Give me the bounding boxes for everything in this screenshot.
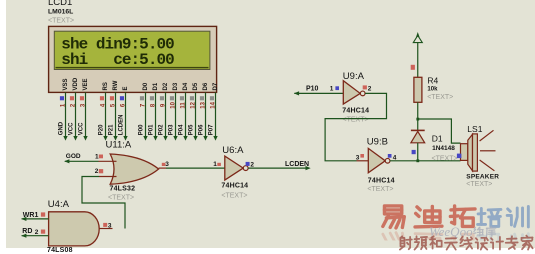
- svg-text:D1: D1: [153, 82, 159, 90]
- wire U9:B output to speaker LS1 pin 2: [390, 160, 461, 162]
- logic state square U11:A pin 2: [99, 169, 103, 173]
- inverter U6:A body 74HC14: [225, 156, 243, 180]
- wire terminal WR1 to U4:A pin 1: [22, 218, 49, 220]
- logic state square U4:A pin 3: [103, 223, 107, 227]
- wire LCD pin 8 to terminal P01: [155, 92, 157, 136]
- logic state square D1 anode: [412, 150, 416, 154]
- wire LCD pin 13 to terminal P06: [205, 92, 207, 136]
- svg-text:10: 10: [170, 101, 176, 108]
- svg-text:WR1: WR1: [23, 212, 39, 219]
- wire LCD pin 4 to terminal P20: [105, 92, 107, 136]
- svg-text:LCD1: LCD1: [48, 0, 72, 8]
- logic state square LCD pin 6: [120, 96, 124, 100]
- junction dot R4/D1/speaker node: [416, 118, 419, 121]
- svg-text:74HC14: 74HC14: [221, 182, 248, 189]
- svg-text:VSS: VSS: [63, 78, 69, 90]
- wire LCD pin 7 to terminal P00: [145, 92, 147, 136]
- svg-text:P21: P21: [109, 124, 115, 135]
- wire LCD pin 14 to terminal P07: [215, 92, 217, 136]
- wire node GOD to U11:A pin 1: [65, 160, 99, 162]
- watermark logo char xun (blue): [507, 206, 528, 227]
- svg-text:VDD: VDD: [73, 77, 79, 90]
- wire LCD pin 12 to terminal P05: [195, 92, 197, 136]
- svg-text:3: 3: [356, 154, 360, 161]
- logic state square U11:A pin 3: [162, 163, 166, 166]
- svg-text:D2: D2: [163, 82, 169, 90]
- and-gate U4:A body 74LS08: [49, 212, 100, 246]
- svg-text:RD: RD: [22, 228, 32, 235]
- svg-text:U4:A: U4:A: [48, 199, 70, 210]
- svg-text:<TEXT>: <TEXT>: [432, 156, 458, 163]
- svg-text:SPEAKER: SPEAKER: [466, 174, 499, 181]
- svg-text:<TEXT>: <TEXT>: [466, 181, 492, 188]
- svg-text:D4: D4: [183, 82, 189, 90]
- svg-text:<TEXT>: <TEXT>: [108, 195, 134, 202]
- logic state square LCD pin 5: [110, 96, 114, 100]
- LCD green screen: [54, 31, 210, 69]
- svg-text:U11:A: U11:A: [106, 140, 132, 151]
- wire power terminal to R4 top: [417, 43, 419, 78]
- logic state square LCD pin 14: [210, 96, 214, 100]
- wire U6:A output to LCDEN terminal: [248, 167, 306, 169]
- U11:A output pin 3 stub: [159, 167, 166, 169]
- logic state square U9:A pin 1: [335, 86, 339, 90]
- svg-text:14: 14: [210, 101, 216, 108]
- svg-text:D5: D5: [193, 82, 199, 90]
- logic state square U4:A pin 2: [41, 230, 45, 234]
- logic state square LS1 pin 2: [457, 154, 462, 159]
- logic state square LCD pin 3: [80, 96, 84, 100]
- logic state square LCD pin 8: [150, 96, 154, 100]
- svg-text:LCDEN: LCDEN: [285, 161, 309, 168]
- resistor R4 body: [414, 77, 422, 102]
- logic state square LCD pin 11: [180, 96, 184, 100]
- LCD LCD1 body: [49, 26, 217, 92]
- wire U4:A output to U11:A pin 2: [82, 177, 125, 229]
- svg-text:P00: P00: [139, 124, 145, 135]
- wire LCD pin 10 to terminal P03: [175, 92, 177, 136]
- U6:A output bubble: [243, 166, 248, 171]
- diode D1 cathode bar: [411, 129, 425, 131]
- svg-text:<TEXT>: <TEXT>: [367, 186, 393, 193]
- watermark logo char yi (red): [383, 206, 404, 228]
- U9:A output bubble: [360, 91, 365, 96]
- wire LCD pin 5 to terminal P21: [115, 92, 117, 136]
- logic state square U9:B pin 4: [388, 154, 392, 158]
- logic state square U4:A pin 1: [41, 212, 45, 216]
- watermark logo char di (red): [415, 206, 442, 227]
- wire U11:A pin 3 to U6:A pin 1: [166, 167, 225, 169]
- speaker LS1 cone flare: [468, 134, 473, 171]
- svg-text:LCDEN: LCDEN: [119, 115, 125, 136]
- logic state square U6:A pin 2: [246, 162, 250, 166]
- watermark wei ku small gray glyphs: [474, 227, 483, 236]
- logic state square U9:A pin 2: [363, 85, 367, 89]
- speaker LS1 sound wave lines: [480, 130, 494, 141]
- logic state square LCD pin 12: [190, 96, 194, 100]
- svg-text:D7: D7: [213, 82, 219, 90]
- svg-text:GND: GND: [59, 121, 65, 135]
- svg-text:P10: P10: [306, 85, 319, 92]
- svg-text:10k: 10k: [427, 87, 438, 93]
- svg-text:2: 2: [368, 86, 372, 93]
- logic state square U11:A pin 1: [99, 155, 103, 159]
- logic state square LCD pin 9: [160, 96, 164, 100]
- svg-text:P05: P05: [189, 124, 195, 135]
- svg-text:D3: D3: [173, 82, 179, 90]
- wire LCD pin 2 to terminal VCC: [75, 92, 77, 136]
- svg-text:12: 12: [190, 101, 196, 108]
- speaker LS1 cone front: [473, 134, 478, 171]
- svg-text:E: E: [123, 86, 129, 90]
- logic state square LCD pin 4: [100, 96, 104, 100]
- svg-text:RW: RW: [113, 80, 119, 90]
- diode D1 body 1N4148: [411, 131, 425, 142]
- wire R4 bottom to diode D1 cathode: [417, 102, 419, 130]
- U11:A pin 1 stub: [99, 160, 117, 162]
- svg-text:11: 11: [180, 102, 186, 109]
- wire terminal P10 to U9:A pin 1: [294, 92, 343, 94]
- speaker LS1 magnet body: [461, 144, 468, 161]
- svg-text:RS: RS: [103, 82, 109, 90]
- junction dot D1 anode / speaker net: [416, 159, 419, 162]
- svg-text:2: 2: [35, 229, 39, 236]
- svg-text:<TEXT>: <TEXT>: [48, 18, 74, 25]
- logic state square U9:B pin 3: [360, 154, 364, 158]
- svg-text:R4: R4: [427, 76, 438, 86]
- wire LCD pin 6 to terminal LCDEN: [125, 92, 127, 136]
- U9:B output bubble: [385, 158, 390, 163]
- svg-text:1: 1: [330, 85, 334, 92]
- wire LCD pin 3 to terminal VCC: [85, 92, 87, 136]
- svg-text:D0: D0: [143, 82, 149, 90]
- svg-text:74HC14: 74HC14: [368, 178, 395, 185]
- wire junction to speaker LS1 pin 1: [418, 119, 461, 143]
- svg-text:1: 1: [95, 153, 99, 160]
- svg-text:P20: P20: [99, 124, 105, 135]
- wire LCD pin 9 to terminal P02: [165, 92, 167, 136]
- wire U9:A output feedback to U9:B input: [325, 93, 386, 160]
- U9:B pin 3 stub: [357, 160, 369, 162]
- power terminal VCC arrow symbol: [413, 35, 422, 42]
- logic state square LCD pin 7: [140, 96, 144, 100]
- svg-text:VCC: VCC: [79, 122, 85, 135]
- watermark slogan row: she pin he tian xian she ji zhuan jia: [400, 236, 412, 249]
- svg-text:74HC14: 74HC14: [342, 108, 369, 115]
- svg-text:74LS08: 74LS08: [47, 247, 73, 254]
- svg-text:P07: P07: [209, 124, 215, 135]
- wire LCD pin 11 to terminal P04: [185, 92, 187, 136]
- svg-text:<TEXT>: <TEXT>: [343, 116, 369, 123]
- svg-text:D6: D6: [203, 82, 209, 90]
- svg-text:VCC: VCC: [69, 122, 75, 135]
- svg-text:GOD: GOD: [66, 153, 81, 160]
- wire terminal RD to U4:A pin 2: [22, 235, 49, 237]
- svg-text:2: 2: [95, 168, 99, 175]
- svg-text:VEE: VEE: [83, 78, 89, 90]
- svg-text:1: 1: [213, 161, 217, 168]
- logic state square LCD pin 10: [170, 96, 174, 100]
- svg-text:U9:A: U9:A: [343, 71, 365, 82]
- svg-text:P03: P03: [169, 124, 175, 135]
- U4:A output pin 3 stub: [99, 228, 112, 230]
- inverter U9:A body 74HC14: [343, 81, 360, 104]
- logic state square U6:A pin 1: [217, 163, 221, 166]
- LCD screen bottom cursor line: [56, 67, 209, 68]
- svg-text:U9:B: U9:B: [367, 136, 388, 147]
- logic state square LCD pin 13: [200, 96, 204, 100]
- inverter U9:B body 74HC14: [368, 148, 385, 172]
- svg-text:shi ce:5.00: shi ce:5.00: [61, 51, 174, 69]
- svg-text:<TEXT>: <TEXT>: [221, 192, 247, 199]
- svg-text:P01: P01: [149, 124, 155, 135]
- svg-text:P06: P06: [199, 124, 205, 135]
- or-gate U11:A body 74LS32: [110, 154, 158, 184]
- svg-text:13: 13: [200, 101, 206, 108]
- logic state square R4 pin 1: [411, 65, 415, 70]
- U11:A pin 2 stub: [99, 176, 117, 178]
- svg-text:<TEXT>: <TEXT>: [427, 94, 453, 101]
- svg-text:D1: D1: [432, 134, 443, 144]
- svg-text:3: 3: [165, 161, 169, 168]
- svg-text:1N4148: 1N4148: [432, 145, 455, 152]
- wire LCD pin 1 to terminal GND: [65, 92, 67, 136]
- svg-text:LS1: LS1: [467, 124, 482, 134]
- svg-text:WeeQoo: WeeQoo: [429, 224, 473, 239]
- watermark logo char pei (blue): [478, 208, 501, 226]
- svg-text:LM016L: LM016L: [48, 9, 73, 16]
- logic state square LCD pin 1: [60, 96, 64, 100]
- logic state square LCD pin 2: [70, 96, 74, 100]
- svg-text:3: 3: [108, 223, 112, 230]
- svg-text:U6:A: U6:A: [222, 145, 244, 156]
- svg-text:P04: P04: [179, 124, 185, 135]
- svg-text:74LS32: 74LS32: [110, 186, 136, 193]
- wire D1 anode to output net: [417, 143, 419, 161]
- watermark logo char tuo (red): [450, 206, 475, 227]
- svg-text:P02: P02: [159, 124, 165, 135]
